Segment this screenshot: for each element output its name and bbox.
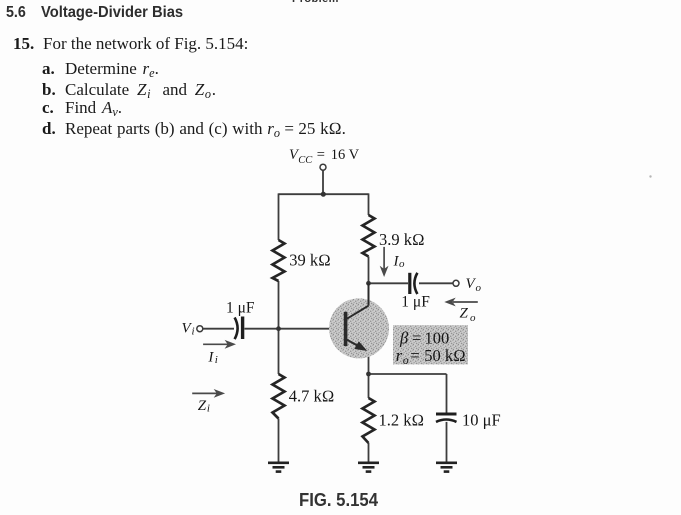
svg-text:=: = [410, 346, 419, 365]
svg-text:I: I [207, 349, 214, 365]
svg-text:r: r [396, 346, 403, 365]
svg-text:1 μF: 1 μF [401, 293, 430, 310]
svg-text:o: o [403, 355, 409, 367]
svg-text:10 μF: 10 μF [462, 411, 501, 430]
svg-text:4.7 kΩ: 4.7 kΩ [289, 386, 335, 405]
svg-text:β: β [399, 329, 409, 348]
svg-text:100: 100 [425, 329, 450, 348]
svg-text:o: o [399, 258, 405, 270]
svg-text:16 V: 16 V [331, 147, 360, 163]
svg-text:i: i [207, 403, 210, 415]
svg-text:Z: Z [198, 398, 207, 414]
svg-text:o: o [470, 312, 476, 324]
svg-text:3.9 kΩ: 3.9 kΩ [379, 230, 425, 249]
svg-text:1 μF: 1 μF [226, 300, 255, 317]
svg-text:39 kΩ: 39 kΩ [289, 250, 331, 269]
svg-text:o: o [476, 282, 482, 294]
svg-text:CC: CC [298, 155, 313, 166]
svg-text:i: i [192, 326, 195, 338]
svg-text:=: = [412, 329, 421, 348]
svg-text:=: = [317, 147, 325, 163]
svg-text:50 kΩ: 50 kΩ [424, 346, 466, 365]
svg-text:1.2 kΩ: 1.2 kΩ [379, 411, 425, 430]
svg-text:FIG. 5.154: FIG. 5.154 [299, 490, 378, 510]
svg-text:Z: Z [460, 306, 469, 322]
svg-text:i: i [215, 354, 218, 366]
